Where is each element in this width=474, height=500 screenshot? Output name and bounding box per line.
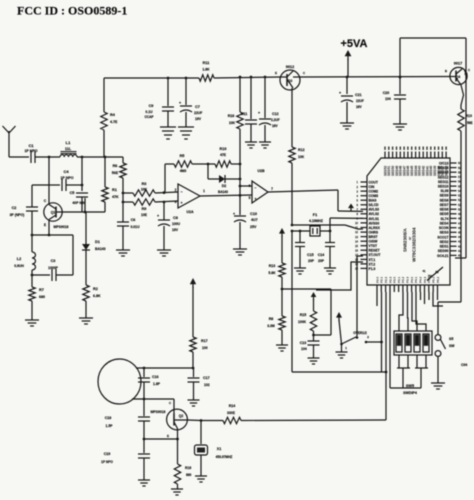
- inductor L2: [14, 235, 35, 275]
- svg-text:SEG14: SEG14: [438, 166, 449, 170]
- svg-text:8: 8: [357, 212, 359, 216]
- svg-text:10: 10: [355, 221, 358, 225]
- svg-text:GC4.21: GC4.21: [437, 254, 449, 258]
- wire Q3 emitter down: [291, 88, 293, 147]
- wire Q4 emitter: [461, 85, 464, 109]
- svg-text:22UF: 22UF: [194, 111, 202, 115]
- svg-text:C9: C9: [149, 104, 154, 108]
- capacitor C4: [49, 169, 82, 191]
- svg-text:1: 1: [345, 346, 347, 350]
- ic U1 corner mark: [423, 267, 443, 281]
- svg-text:AVLS1: AVLS1: [369, 217, 380, 221]
- svg-text:C10: C10: [250, 212, 257, 216]
- svg-text:AVSS0: AVSS0: [369, 221, 380, 225]
- ic U1 top pin numbers: [384, 147, 447, 150]
- svg-text:SEG2: SEG2: [440, 240, 449, 244]
- op-amp U2A: [175, 184, 206, 214]
- svg-text:SEG9: SEG9: [440, 194, 449, 198]
- title text FCC ID: [17, 4, 127, 18]
- svg-text:+: +: [233, 211, 236, 216]
- svg-text:BA143: BA143: [95, 247, 106, 251]
- wire stub b9: [437, 292, 439, 300]
- svg-text:CIN: CIN: [369, 185, 375, 189]
- svg-text:+5VA: +5VA: [340, 38, 367, 50]
- svg-text:22UF: 22UF: [356, 99, 364, 103]
- svg-text:41: 41: [423, 269, 426, 273]
- svg-text:47K: 47K: [112, 195, 119, 199]
- wire U2B minus stub: [240, 185, 252, 187]
- svg-text:S5: S5: [449, 337, 453, 341]
- wire C5 node down to D1: [84, 198, 86, 212]
- wire F1 left: [291, 230, 310, 233]
- capacitor C10: [233, 211, 258, 249]
- svg-text:C7: C7: [195, 105, 200, 109]
- node column x240: [239, 129, 242, 215]
- svg-text:1P NPO: 1P NPO: [60, 176, 73, 180]
- svg-text:680: 680: [39, 295, 45, 299]
- capacitor C8: [157, 201, 181, 250]
- svg-text:E: E: [167, 434, 169, 438]
- diode D1: [82, 212, 106, 285]
- wire node x49 down: [48, 157, 50, 185]
- svg-text:C14: C14: [318, 253, 325, 257]
- svg-text:Q2: Q2: [179, 414, 184, 418]
- svg-text:P2: P2: [435, 270, 439, 274]
- transistor Q4: [445, 62, 471, 86]
- wire Q2 emitter row: [143, 438, 179, 441]
- svg-text:9012: 9012: [286, 65, 294, 69]
- svg-text:+: +: [258, 110, 261, 115]
- capacitor C6: [117, 218, 140, 250]
- svg-text:D1: D1: [95, 240, 100, 244]
- ground below C8: [157, 250, 171, 256]
- dip switch SW5 bottom wiring: [390, 355, 428, 388]
- svg-text:C2: C2: [12, 206, 17, 210]
- svg-text:C15: C15: [307, 253, 314, 257]
- ground below C21: [340, 123, 354, 129]
- svg-text:6: 6: [249, 184, 251, 188]
- ground below R2: [79, 318, 93, 324]
- svg-text:3: 3: [175, 200, 177, 204]
- svg-text:X1: X1: [217, 447, 221, 451]
- dip switch SW5 label: [403, 384, 417, 395]
- svg-text:102: 102: [204, 383, 210, 387]
- pushbutton S5: [435, 335, 455, 357]
- wire F1 right to IC pin: [330, 218, 363, 231]
- capacitor C7: [179, 78, 202, 127]
- ic U1 right pins: [437, 161, 461, 258]
- capacitor C1: [24, 143, 37, 163]
- ground below R16: [171, 489, 183, 495]
- svg-text:20P: 20P: [318, 259, 325, 263]
- wire loop lower tap: [132, 398, 174, 401]
- svg-text:XT.2: XT.2: [369, 262, 376, 266]
- svg-text:56E: 56E: [112, 171, 119, 175]
- loop antenna: [98, 359, 141, 404]
- ground below C7: [178, 127, 194, 139]
- svg-text:SEG10: SEG10: [438, 185, 449, 189]
- power arrow above R15: [311, 292, 317, 311]
- svg-text:ALRSX: ALRSX: [369, 226, 381, 230]
- capacitor C15: [295, 230, 315, 268]
- svg-text:2: 2: [367, 335, 369, 339]
- svg-text:14: 14: [355, 239, 358, 243]
- svg-text:CCAP: CCAP: [144, 115, 154, 119]
- wire stub b8: [433, 292, 443, 306]
- svg-text:C12: C12: [272, 112, 279, 116]
- svg-text:FCC ID : OSO0589-1: FCC ID : OSO0589-1: [17, 4, 127, 18]
- svg-text:104: 104: [385, 97, 391, 101]
- svg-text:+: +: [255, 197, 257, 201]
- svg-text:OVER1/2: OVER1/2: [353, 331, 367, 335]
- ground below C10: [233, 249, 247, 255]
- svg-text:E: E: [275, 71, 277, 75]
- svg-text:SL08: SL08: [441, 189, 449, 193]
- svg-text:20P: 20P: [308, 259, 315, 263]
- wire dip feed 3: [412, 292, 417, 331]
- svg-text:1: 1: [203, 189, 205, 193]
- wire switch to bus: [366, 341, 383, 344]
- resistor R16: [174, 429, 191, 490]
- svg-text:R2: R2: [93, 287, 98, 291]
- wire right col to pushbutton: [438, 302, 461, 334]
- svg-text:100: 100: [202, 346, 208, 350]
- capacitor C17: [188, 368, 210, 400]
- ground below C12: [259, 142, 271, 148]
- svg-text:C13: C13: [300, 341, 307, 345]
- svg-text:AVLS3: AVLS3: [369, 208, 380, 212]
- svg-text:C21: C21: [355, 93, 362, 97]
- svg-text:XT.OUT: XT.OUT: [369, 253, 381, 257]
- svg-text:3.3M: 3.3M: [267, 324, 275, 328]
- wire U2B output: [268, 190, 338, 192]
- svg-text:SCON: SCON: [439, 226, 449, 230]
- svg-text:+: +: [157, 213, 160, 218]
- svg-text:R6: R6: [113, 164, 118, 168]
- capacitor C20: [383, 38, 406, 124]
- svg-text:5.8K: 5.8K: [268, 271, 276, 275]
- svg-text:C19: C19: [104, 452, 111, 456]
- svg-text:Q4: Q4: [456, 75, 461, 79]
- svg-text:C20: C20: [383, 91, 390, 95]
- crystal X1: [195, 421, 233, 477]
- svg-text:5: 5: [249, 196, 251, 200]
- wire Q2 base: [188, 419, 202, 422]
- wire +5V right side down: [455, 74, 466, 258]
- capacitor C2: [10, 185, 38, 235]
- svg-text:R11: R11: [203, 61, 210, 65]
- resistor R6: [112, 157, 126, 222]
- svg-text:1P NPO: 1P NPO: [24, 149, 37, 153]
- svg-text:Q3: Q3: [288, 79, 293, 83]
- wire +5V top rail: [400, 38, 466, 74]
- resistor R11: [199, 61, 280, 81]
- svg-text:16V: 16V: [195, 117, 202, 121]
- wire R12 node to F1 top: [291, 224, 363, 229]
- resistor R19: [458, 109, 473, 131]
- svg-text:BRST: BRST: [369, 235, 378, 239]
- capacitor C14: [318, 231, 335, 268]
- wire stub b5: [420, 292, 422, 300]
- svg-text:C5: C5: [70, 191, 75, 195]
- svg-text:13: 13: [355, 235, 358, 239]
- transistor Q2: [151, 399, 188, 438]
- ground below C9: [160, 127, 176, 139]
- ground below C15: [294, 268, 306, 274]
- switch SW2 blade: [340, 331, 369, 350]
- resistor R10: [207, 147, 240, 167]
- power +5VA label: [340, 38, 367, 50]
- resistor R12: [289, 147, 305, 225]
- svg-text:−: −: [180, 190, 182, 194]
- dip switch SW5: [394, 331, 432, 355]
- svg-text:AVLS2: AVLS2: [369, 212, 380, 216]
- wire Q1 emitter row: [31, 234, 73, 237]
- svg-text:10K: 10K: [141, 188, 148, 192]
- svg-text:3: 3: [357, 189, 359, 193]
- svg-text:C16: C16: [152, 375, 159, 379]
- svg-text:R16: R16: [185, 466, 191, 470]
- resistor R8: [267, 289, 285, 345]
- svg-text:Q1: Q1: [51, 211, 56, 215]
- dip switch SW5 sliders: [396, 334, 429, 352]
- svg-text:1.5P: 1.5P: [106, 424, 114, 428]
- svg-text:1P NPO: 1P NPO: [101, 460, 113, 464]
- resistor R4: [101, 78, 118, 157]
- power arrow above R13: [279, 228, 285, 263]
- op-amp U2B: [249, 169, 274, 203]
- svg-text:MPS9018: MPS9018: [151, 410, 166, 414]
- svg-text:L2: L2: [17, 257, 21, 261]
- capacitor C9: [144, 78, 174, 127]
- ground below C19: [138, 480, 150, 486]
- svg-text:L1: L1: [66, 140, 71, 145]
- svg-text:9017: 9017: [454, 62, 462, 66]
- svg-text:C3: C3: [51, 259, 56, 263]
- ground below C11: [245, 142, 257, 148]
- wire L1 to R6: [77, 156, 123, 159]
- svg-text:SEG11: SEG11: [438, 180, 449, 184]
- svg-text:1.8P: 1.8P: [153, 382, 161, 386]
- svg-text:1000P: 1000P: [48, 266, 59, 270]
- svg-text:C: C: [468, 68, 471, 72]
- svg-text:OHRS: OHRS: [369, 231, 379, 235]
- svg-text:7: 7: [271, 187, 273, 191]
- svg-text:COM3: COM3: [369, 194, 379, 198]
- svg-text:MPS9018: MPS9018: [54, 225, 69, 229]
- svg-text:COUT: COUT: [369, 180, 378, 184]
- inductor L1: [60, 140, 77, 157]
- capacitor C18: [105, 399, 150, 439]
- capacitor C12: [258, 76, 280, 142]
- svg-text:100K: 100K: [298, 320, 307, 324]
- antenna E1: [3, 126, 16, 157]
- ground below C20: [393, 124, 407, 130]
- svg-text:U2A: U2A: [186, 210, 194, 214]
- svg-text:R4: R4: [110, 113, 116, 117]
- svg-text:0.01U: 0.01U: [130, 225, 140, 229]
- svg-text:R18: R18: [228, 114, 235, 118]
- ground below C13: [308, 358, 320, 364]
- svg-text:C18: C18: [105, 416, 112, 420]
- wire R19 down right side: [460, 131, 462, 302]
- wire IC pin to R15: [316, 262, 363, 290]
- svg-text:16V: 16V: [172, 228, 179, 232]
- ground below C6: [116, 250, 130, 256]
- capacitor C13: [300, 341, 320, 358]
- svg-text:R5: R5: [180, 154, 185, 158]
- svg-text:P1.0: P1.0: [369, 267, 376, 271]
- wire dip feed 4: [416, 292, 426, 331]
- wire R14 to IC: [241, 292, 386, 421]
- svg-text:P3.3: P3.3: [406, 276, 410, 283]
- svg-text:6.8K: 6.8K: [93, 294, 101, 298]
- wire rail Q3 to +5VA: [300, 76, 450, 79]
- svg-text:10K: 10K: [298, 155, 305, 159]
- svg-text:F1: F1: [313, 213, 317, 217]
- capacitor C19: [101, 439, 150, 480]
- svg-text:10E: 10E: [141, 213, 148, 217]
- ground below R8: [276, 345, 288, 351]
- wire F1 right: [320, 230, 331, 233]
- svg-text:SL74: SL74: [441, 217, 449, 221]
- svg-text:B: B: [445, 69, 448, 73]
- svg-text:104: 104: [301, 347, 307, 351]
- wire bottom bus rail: [292, 231, 387, 373]
- capacitor C11: [241, 76, 257, 142]
- wire IC pin col A: [376, 292, 378, 306]
- svg-text:O/SW: O/SW: [369, 240, 379, 244]
- ground below C17: [188, 400, 200, 406]
- ic U1 outline: [367, 158, 450, 285]
- resistor R5 feedback: [165, 154, 208, 192]
- svg-text:56E: 56E: [467, 121, 473, 125]
- svg-text:4U7: 4U7: [251, 218, 258, 222]
- svg-text:SEG7: SEG7: [440, 203, 449, 207]
- svg-text:C1: C1: [28, 143, 34, 148]
- svg-text:453.97MHZ: 453.97MHZ: [216, 455, 233, 459]
- capacitor C5: [70, 191, 88, 212]
- svg-text:SWDIP4: SWDIP4: [403, 391, 417, 395]
- ground below X1: [195, 476, 207, 482]
- svg-text:COM2: COM2: [369, 190, 379, 194]
- ground below C14: [324, 268, 336, 274]
- svg-text:R10: R10: [220, 147, 227, 151]
- power arrow on XT wire: [348, 204, 354, 212]
- wire C1 to L1: [35, 156, 60, 159]
- svg-text:W78C3382/3304: W78C3382/3304: [412, 227, 417, 262]
- switch SW2 arrow: [336, 312, 342, 344]
- svg-text:R9: R9: [142, 207, 147, 211]
- svg-text:2.2UF: 2.2UF: [271, 118, 280, 122]
- svg-text:40P N80: 40P N80: [72, 201, 85, 205]
- svg-text:P2.2: P2.2: [384, 276, 388, 283]
- svg-text:+: +: [339, 90, 342, 95]
- svg-text:RESET: RESET: [369, 249, 380, 253]
- wire IC pin to switch: [357, 256, 363, 336]
- power +5VA arrow: [345, 50, 352, 77]
- svg-text:R1: R1: [112, 188, 117, 192]
- resistor R15: [298, 311, 317, 341]
- ic U1 bottom pins: [375, 276, 440, 292]
- svg-text:D2: D2: [222, 184, 227, 188]
- svg-text:SEG5: SEG5: [440, 212, 449, 216]
- svg-text:3P (NPO): 3P (NPO): [10, 213, 25, 217]
- wire U2A output: [200, 194, 252, 197]
- wire stub b6: [424, 292, 426, 304]
- svg-text:R13: R13: [269, 264, 276, 268]
- svg-text:2: 2: [357, 185, 359, 189]
- wire antenna to C1: [9, 156, 29, 158]
- ground below R7: [25, 320, 39, 326]
- svg-text:10K: 10K: [229, 121, 236, 125]
- wire IC pin col C: [389, 292, 391, 388]
- diode D2: [208, 175, 240, 194]
- capacitor C21: [339, 77, 364, 123]
- svg-text:C: C: [303, 71, 306, 75]
- wire R5 junction to D2: [207, 164, 209, 179]
- svg-text:16V: 16V: [272, 124, 279, 128]
- ground below switch: [336, 344, 348, 358]
- wire dip feed 1: [399, 292, 403, 331]
- resonator F1: [309, 213, 323, 236]
- resistor R3: [122, 182, 178, 196]
- svg-text:BIAS: BIAS: [369, 199, 378, 203]
- svg-text:1: 1: [357, 180, 359, 184]
- svg-text:100U: 100U: [172, 222, 181, 226]
- svg-text:R8: R8: [269, 317, 274, 321]
- wire Q1 base row: [62, 211, 105, 214]
- svg-text:5: 5: [357, 198, 359, 202]
- capacitor C3: [31, 235, 73, 281]
- resistor R2: [83, 285, 101, 318]
- transistor Q3: [275, 65, 306, 90]
- svg-text:4: 4: [357, 194, 359, 198]
- svg-text:C6: C6: [131, 218, 136, 222]
- wire pushbutton to ground: [437, 356, 439, 383]
- svg-text:SEG4: SEG4: [440, 222, 449, 226]
- capacitor C16: [138, 368, 161, 399]
- svg-text:16: 16: [355, 248, 358, 252]
- resistor R17: [190, 337, 208, 368]
- ic U1 left pins: [355, 180, 380, 271]
- svg-text:0.1U: 0.1U: [145, 110, 153, 114]
- svg-text:E: E: [44, 223, 47, 227]
- svg-text:SW5: SW5: [406, 384, 414, 388]
- svg-text:R7: R7: [39, 288, 44, 292]
- svg-text:SEG12: SEG12: [438, 175, 449, 179]
- ic U1 top pins: [383, 152, 448, 177]
- svg-text:R15: R15: [300, 313, 307, 317]
- svg-text:0.9UH: 0.9UH: [14, 264, 24, 268]
- ground below S5: [431, 383, 445, 389]
- svg-text:O/C13: O/C13: [439, 161, 449, 165]
- svg-text:SEG8: SEG8: [440, 198, 449, 202]
- power arrow above R17: [190, 278, 196, 337]
- svg-text:741: 741: [428, 274, 433, 278]
- wire top rail left: [104, 77, 199, 80]
- svg-text:C: C: [44, 199, 47, 203]
- svg-text:R3: R3: [142, 182, 147, 186]
- svg-text:1.8K: 1.8K: [202, 68, 210, 72]
- resistor R9: [122, 199, 178, 217]
- svg-text:C04: C04: [461, 363, 467, 367]
- svg-text:SCO1T: SCO1T: [437, 235, 448, 239]
- svg-text:47E: 47E: [220, 153, 227, 157]
- svg-text:VTST: VTST: [369, 244, 378, 248]
- svg-text:R12: R12: [298, 148, 305, 152]
- svg-text:S/LCD: S/LCD: [369, 203, 380, 207]
